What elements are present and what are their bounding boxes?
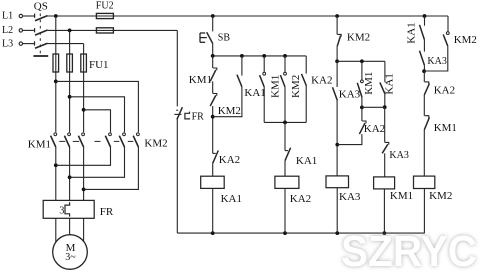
wire cross A to KM2 pole3 — [56, 81, 139, 132]
wire control bus 2 — [337, 60, 385, 62]
relay coil KA3 — [326, 176, 349, 188]
junction bus1 A — [211, 54, 215, 58]
junction sub L node — [335, 143, 339, 147]
svg-text:KA1: KA1 — [405, 22, 417, 43]
wire sub M to merge — [361, 97, 363, 107]
svg-text:KA1: KA1 — [221, 193, 242, 205]
junction merge B — [68, 175, 72, 179]
wire L3 to QS — [23, 43, 34, 45]
wire SB branch top — [212, 16, 214, 31]
contactor KM2 main pole 3 — [137, 133, 140, 136]
wire sub M upper — [361, 61, 363, 80]
svg-text:SB: SB — [218, 32, 231, 43]
wire cross B to KM2 pole2 — [70, 97, 125, 132]
wire sec4 mid3 — [423, 95, 425, 116]
junction sec4 node — [422, 69, 426, 73]
thermal relay FR NC contact — [176, 109, 178, 111]
junction phase C tap — [82, 108, 86, 112]
wire L1 drop to FU1 — [55, 16, 57, 54]
junction branch A node — [211, 115, 215, 119]
wire sec3 top — [336, 16, 338, 34]
terminal L2 — [19, 29, 22, 32]
wire branch KA2 lower — [305, 86, 307, 123]
svg-text:KA1: KA1 — [244, 87, 265, 99]
wire sub L upper — [336, 61, 338, 87]
svg-text:KA3: KA3 — [427, 56, 446, 67]
KM1 linkage dashes — [59, 140, 65, 142]
contact KA1 NO branch B — [237, 75, 242, 87]
wire branch A upper — [212, 56, 214, 68]
wire top rail L1 node — [48, 15, 449, 17]
wire L3 to drop — [48, 43, 84, 45]
wire KM1 pole2 out — [69, 147, 71, 200]
wire into KA1 coil — [212, 163, 214, 176]
junction bus1 D — [283, 54, 287, 58]
wire KM2 self-hold branch — [447, 16, 449, 32]
junction L1 drop — [54, 14, 58, 18]
junction bottom KM1 coil — [383, 231, 387, 235]
wire KM1 pole3 out — [83, 147, 85, 200]
wire control bus 1 — [213, 55, 307, 57]
contactor KM2 main pole 1 — [109, 133, 112, 136]
contact KA2 NC sec4 — [425, 82, 429, 84]
wire sub R to merge — [384, 94, 386, 108]
fuse FU1b — [67, 54, 73, 72]
svg-text:L1: L1 — [2, 11, 13, 22]
contactor KM2 main pole 2 — [123, 133, 126, 136]
wire KA1 coil to bus — [212, 188, 214, 233]
wire phase B to KM1 — [69, 72, 71, 132]
contact KA3 NO sec4 — [420, 51, 425, 65]
switch QS pole 3 — [34, 41, 36, 45]
contact KM2 NC interlock — [337, 34, 341, 36]
contactor KM1 main pole 1 — [54, 133, 57, 136]
wire sub R upper — [384, 61, 386, 82]
svg-text:KM2: KM2 — [290, 75, 302, 98]
svg-text:KM1: KM1 — [390, 190, 413, 202]
junction parallel join — [283, 121, 287, 125]
wire branch D upper — [284, 56, 286, 72]
wire KM1 pole1 out — [55, 147, 57, 200]
wire KA2 coil to bus — [284, 188, 286, 233]
junction merge A — [54, 163, 58, 167]
svg-text:KM1: KM1 — [270, 75, 282, 98]
svg-text:KM2: KM2 — [144, 138, 167, 150]
junction bus2 left — [335, 59, 339, 63]
fuse FU1c — [81, 54, 87, 72]
junction bus2 mid — [360, 59, 364, 63]
wire KM2 pole1 out — [56, 147, 111, 165]
wire below merge R — [384, 107, 386, 142]
svg-text:KA2: KA2 — [311, 74, 332, 86]
contact KA1 NO sub R — [380, 82, 385, 93]
contact KA2 NO branch A — [213, 152, 216, 154]
svg-text:KA1: KA1 — [296, 155, 317, 167]
wire merge M-R — [362, 106, 385, 108]
relay coil KA2 — [275, 176, 299, 188]
terminal L1 — [19, 14, 22, 17]
wire L2 rail — [48, 29, 178, 31]
svg-text:3: 3 — [59, 205, 64, 216]
switch QS linkage — [39, 14, 41, 54]
wire L2 to QS — [23, 29, 34, 31]
svg-text:FR: FR — [100, 206, 114, 218]
switch QS pole 2 — [34, 28, 36, 32]
wire branch B upper — [241, 56, 243, 76]
wire FR to motor 2 — [69, 218, 71, 236]
wire parallel join — [264, 121, 306, 123]
svg-text:KA2: KA2 — [434, 85, 455, 97]
contact KA1 NO above KA2 coil — [285, 150, 288, 152]
wire KA2 NC to KA3 node — [337, 134, 362, 145]
contactor KM1 main pole 2 — [68, 133, 71, 136]
junction phase B tap — [68, 95, 72, 99]
svg-text:L3: L3 — [2, 38, 13, 49]
wire control left rail upper — [176, 30, 178, 106]
svg-text:KA2: KA2 — [290, 193, 311, 205]
wire KM2 self-hold lower — [424, 46, 448, 71]
contact KA1 NO sec4 — [420, 25, 425, 40]
junction bottom KA2 coil — [283, 231, 287, 235]
svg-text:KM1: KM1 — [189, 74, 212, 86]
wire branch D lower — [284, 87, 286, 123]
fuse FU2a — [96, 13, 113, 18]
wire into KM2 coil — [423, 130, 425, 176]
contactor coil KM2 — [414, 176, 435, 188]
wire to KA1 contact D — [284, 122, 286, 150]
contact KA3 NO sub L — [333, 87, 338, 100]
wire bottom return bus — [177, 232, 424, 234]
junction top rail sec4 — [423, 14, 427, 18]
wire sub L lower — [336, 101, 338, 176]
contact KM1 NO self-hold — [263, 72, 266, 75]
junction phase A tap — [54, 80, 58, 84]
junction L2 drop — [68, 29, 72, 33]
relay coil KA1 — [201, 176, 225, 188]
wire sec4 top — [424, 16, 426, 26]
svg-text:KA2: KA2 — [219, 154, 240, 166]
svg-text:KM2: KM2 — [454, 34, 477, 46]
svg-text:KA3: KA3 — [339, 88, 361, 100]
wire branch B lower — [213, 87, 242, 117]
junction merge C — [82, 188, 86, 192]
svg-text:KM1: KM1 — [434, 122, 457, 134]
svg-text:L2: L2 — [2, 25, 13, 36]
KM2 linkage dashes — [114, 140, 120, 142]
wire L3 drop to FU1 — [83, 44, 85, 54]
contact KM2 NC branch A — [213, 94, 217, 96]
contact KA2 NO side branch — [302, 74, 307, 86]
wire into KM1 coil — [384, 153, 386, 177]
terminal L3 — [19, 42, 22, 45]
svg-text:QS: QS — [34, 0, 48, 12]
wire L2 drop to FU1 — [69, 30, 71, 54]
wire phase A to KM1 — [55, 72, 57, 132]
contact KA3 NC above KM1 coil — [385, 142, 389, 144]
motor M — [53, 235, 88, 270]
wire FR to motor 3 — [83, 218, 85, 243]
wire sec4 mid2 — [423, 71, 425, 82]
junction merge R — [383, 105, 387, 109]
wire sec3 to bus2 — [336, 46, 338, 61]
junction bus1 C — [262, 54, 266, 58]
wire cross C to KM2 pole1 — [84, 110, 111, 132]
svg-text:KA1: KA1 — [384, 73, 396, 94]
wire branch C upper — [263, 56, 265, 72]
wire branch C lower — [263, 87, 265, 123]
contact KM2 NO self-hold — [284, 72, 287, 75]
junction bottom KA3 coil — [335, 231, 339, 235]
wire L1 to QS — [23, 15, 34, 17]
svg-text:FU1: FU1 — [89, 59, 109, 71]
wire FR to motor 1 — [55, 218, 57, 243]
contact KM1 NC branch A — [213, 68, 217, 70]
svg-text:KM1: KM1 — [363, 72, 375, 95]
pushbutton SB — [199, 33, 201, 42]
svg-text:FR: FR — [192, 111, 205, 122]
wire branch KA2 side — [305, 56, 307, 74]
svg-text:KM1: KM1 — [28, 139, 51, 151]
svg-text:SZRYC: SZRYC — [341, 227, 477, 274]
wire KA3 coil to bus — [336, 188, 338, 233]
svg-text:KM2: KM2 — [429, 190, 452, 202]
wire branch A lower — [212, 106, 214, 153]
svg-text:KM2: KM2 — [218, 105, 241, 117]
watermark SZRYC — [341, 227, 477, 274]
wire control left rail lower — [176, 119, 178, 233]
wire phase C to KM1 — [83, 72, 85, 132]
switch QS pole 1 — [34, 14, 36, 18]
junction bus1 B — [240, 54, 244, 58]
fuse FU1a — [53, 54, 59, 72]
contactor KM1 main pole 3 — [82, 133, 85, 136]
wire KM2 pole3 out — [84, 147, 139, 189]
junction top rail sec3 — [335, 14, 339, 18]
wire SB to bus — [212, 44, 214, 56]
wire KM1 coil to bus — [383, 189, 385, 233]
wire into KA2 coil — [284, 161, 286, 177]
junction top rail SB — [211, 14, 215, 18]
wire sec4 to node — [423, 65, 425, 71]
wire below merge M — [361, 107, 363, 121]
junction bottom KA1 coil — [211, 231, 215, 235]
svg-text:3~: 3~ — [65, 252, 76, 263]
contact KM1 NO sub M — [361, 80, 364, 83]
thermal relay FR heater box — [43, 200, 94, 218]
wire KM2 coil to bus — [423, 189, 425, 234]
contact KM1 NC sec4 — [425, 116, 429, 118]
fuse FU2b — [96, 28, 113, 33]
svg-text:KA2: KA2 — [364, 123, 385, 135]
svg-text:KA3: KA3 — [389, 150, 408, 161]
contact KM2 NO self-hold sec4 — [446, 32, 449, 35]
contactor coil KM1 — [374, 177, 395, 189]
svg-text:KM2: KM2 — [347, 32, 370, 44]
wire branch A mid — [212, 81, 214, 93]
contact KA2 NC sub M — [362, 121, 366, 123]
junction merge M — [360, 106, 364, 110]
svg-text:FU2: FU2 — [96, 1, 114, 12]
wire KM2 pole2 out — [70, 147, 125, 177]
wire sec4 mid1 — [423, 40, 425, 52]
svg-text:KA3: KA3 — [339, 191, 361, 203]
